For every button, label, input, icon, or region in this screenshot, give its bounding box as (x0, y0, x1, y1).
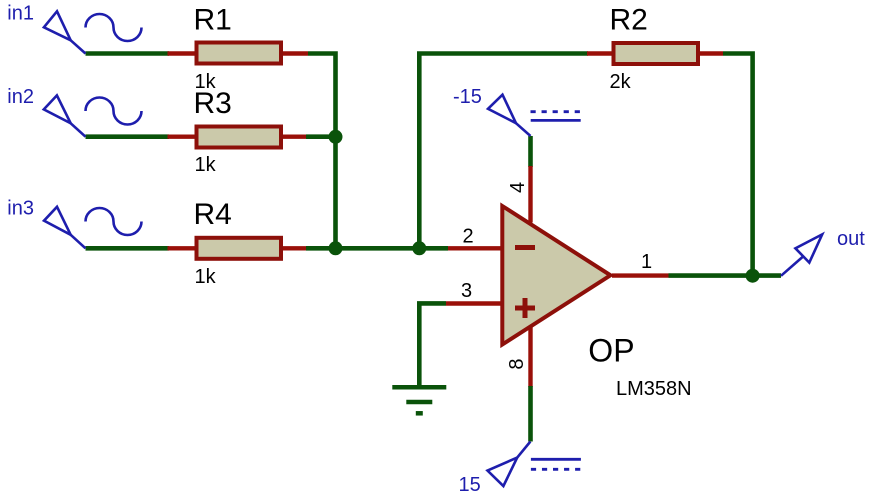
svg-text:in3: in3 (7, 198, 34, 220)
supply 15 tail (517, 442, 530, 458)
wire: pin4 green segment (528, 136, 533, 167)
node junction dot A (R3 output) (329, 130, 343, 144)
wire: feedback left vertical + top rail (419, 54, 588, 249)
svg-text:8: 8 (506, 358, 528, 369)
output port out triangle (795, 234, 822, 262)
wire: pin3 green corner down to ground (419, 303, 446, 387)
wire: row1 input green segment (86, 51, 170, 56)
source VG2 sine wave (86, 98, 142, 125)
svg-text:4: 4 (507, 182, 529, 193)
supply -15 triangle (488, 95, 516, 124)
input port in1 tail (71, 40, 86, 53)
wire: pin8 green segment (528, 386, 533, 442)
source VG3 sine wave (86, 208, 142, 235)
wire: op-amp pin2 red stub (448, 246, 503, 250)
svg-text:1: 1 (641, 251, 652, 273)
wire: R1 output corner down to summing column (308, 54, 336, 249)
wire: R1 pin red segment (under resistor) (168, 51, 309, 55)
wire: R3 output to junction (306, 134, 336, 139)
supply 15 dashed line (531, 468, 581, 471)
op-amp OP triangle (502, 206, 610, 345)
ground bar 3 (416, 411, 423, 416)
wire: R3 pin red segment (168, 134, 309, 138)
svg-text:R3: R3 (194, 87, 232, 120)
svg-text:3: 3 (461, 280, 472, 302)
wire: op-amp pin8 red stub (528, 327, 532, 388)
node junction dot C (inverting input node) (412, 241, 426, 255)
wire: row3 green to op-amp (306, 246, 448, 251)
svg-text:in2: in2 (7, 86, 34, 108)
input port in3 triangle (44, 207, 71, 235)
input port in2 tail (71, 123, 86, 136)
node junction dot D (output node) (746, 269, 760, 283)
wire: row2 input green segment (86, 134, 170, 139)
svg-text:1k: 1k (195, 154, 217, 176)
wire: op-amp pin4 red stub (528, 166, 532, 223)
input port in1 triangle (44, 11, 71, 40)
svg-text:LM358N: LM358N (616, 378, 692, 400)
output port out tail (781, 257, 803, 276)
svg-text:2k: 2k (610, 71, 632, 93)
supply 15 triangle (488, 458, 518, 486)
resistor R4 body (197, 238, 282, 259)
op-amp minus sign (515, 245, 535, 250)
svg-text:R1: R1 (194, 4, 232, 37)
svg-text:in1: in1 (7, 3, 34, 25)
svg-text:2: 2 (463, 226, 474, 248)
input port in3 tail (71, 235, 86, 249)
resistor R1 body (197, 43, 282, 64)
svg-text:out: out (837, 228, 865, 250)
wire: R2 pin red segment (587, 51, 723, 55)
wire: row3 input green segment (86, 246, 170, 251)
ground bar 1 (392, 385, 446, 390)
wire: R2 right to right rail down (723, 54, 753, 276)
wire: R4 pin red segment (168, 246, 308, 250)
ground bar 2 (406, 400, 432, 405)
supply 15 solid line (531, 458, 581, 461)
input port in2 triangle (44, 95, 71, 123)
svg-text:1k: 1k (195, 266, 217, 288)
svg-text:15: 15 (459, 474, 481, 496)
resistor R3 body (197, 127, 282, 148)
node junction dot B (summing node) (329, 241, 343, 255)
svg-text:-15: -15 (453, 86, 482, 108)
source VG1 sine wave (86, 14, 142, 41)
wire: output green segment (669, 273, 782, 278)
op-amp plus sign (515, 306, 535, 311)
supply -15 solid line (531, 119, 581, 122)
svg-text:R2: R2 (610, 4, 648, 37)
wire: op-amp pin3 red stub (446, 301, 502, 305)
supply -15 tail (516, 123, 531, 136)
wire: op-amp pin1 red stub (612, 273, 669, 277)
resistor R2 body (614, 43, 699, 64)
svg-text:R4: R4 (194, 198, 232, 231)
svg-text:OP: OP (588, 332, 634, 368)
supply -15 dashed line (531, 110, 581, 113)
